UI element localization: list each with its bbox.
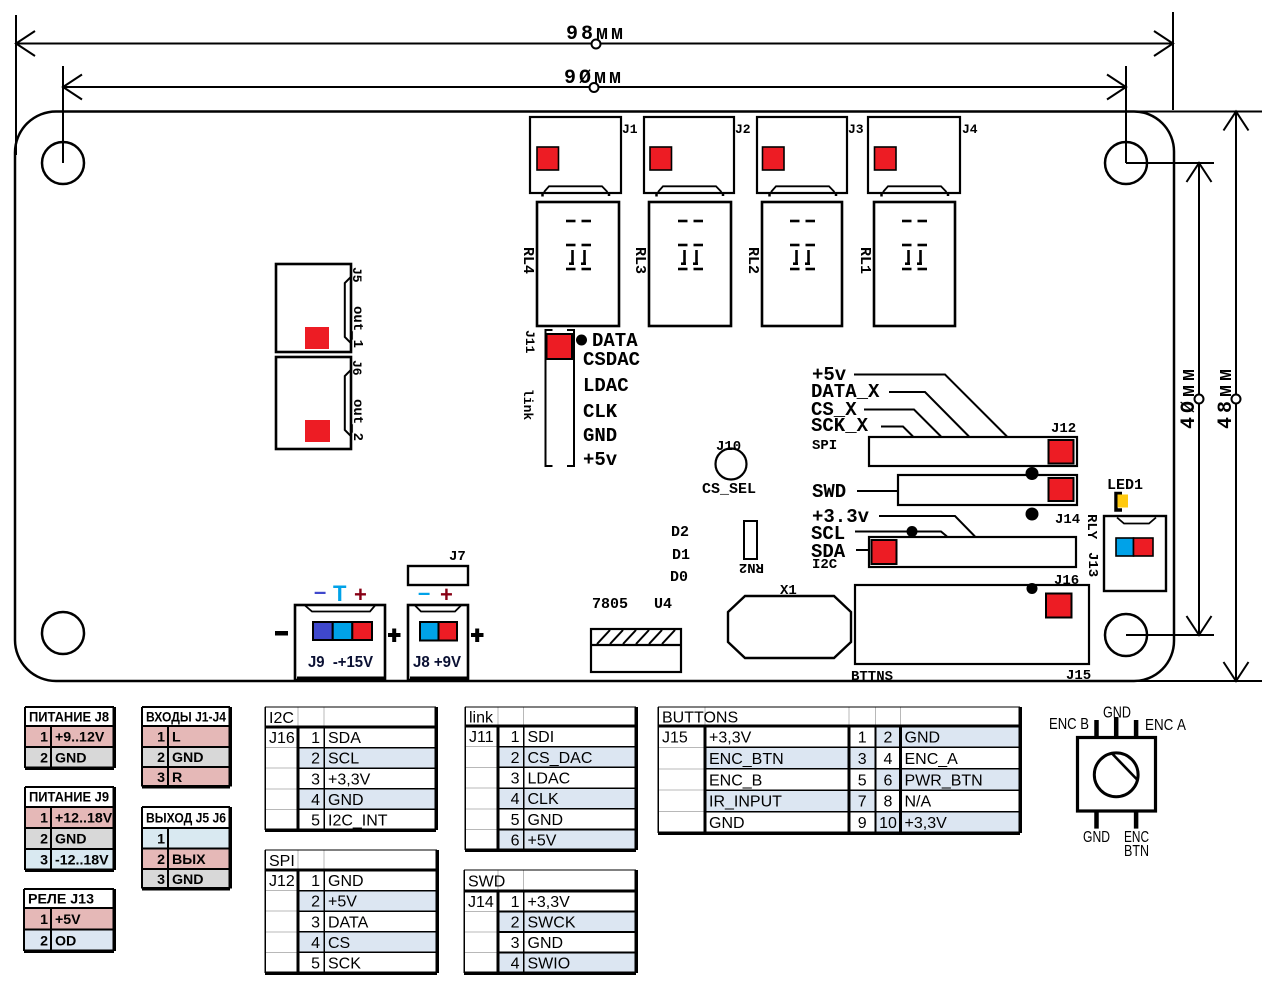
J9 polarity marks	[314, 579, 367, 607]
svg-text:2: 2	[40, 751, 48, 767]
svg-text:+: +	[440, 582, 453, 607]
crystal X1	[728, 583, 851, 658]
svg-text:5: 5	[311, 956, 320, 973]
svg-text:9: 9	[858, 815, 867, 832]
svg-text:-12..18V: -12..18V	[55, 853, 109, 869]
svg-text:5: 5	[858, 772, 867, 789]
via dot	[1027, 583, 1038, 594]
svg-text:CLK: CLK	[583, 401, 618, 423]
svg-text:3: 3	[157, 770, 165, 786]
svg-text:+5V: +5V	[55, 912, 81, 928]
svg-text:2: 2	[311, 751, 320, 768]
connector J15 BTTNS	[851, 585, 1091, 685]
dimension 48mm	[1135, 112, 1262, 682]
net SDA	[811, 541, 869, 563]
mounting hole top-left	[42, 142, 84, 184]
svg-text:6: 6	[884, 772, 893, 789]
table I2C J16	[265, 707, 436, 830]
svg-text:10: 10	[879, 815, 897, 832]
board outline	[15, 111, 1174, 681]
svg-text:GND: GND	[55, 751, 87, 767]
svg-text:RL3: RL3	[631, 247, 648, 274]
svg-text:3: 3	[157, 872, 165, 888]
svg-text:4Øмм: 4Øмм	[1178, 365, 1201, 429]
svg-text:RL4: RL4	[519, 247, 536, 274]
relay RL3	[631, 202, 731, 326]
diode D2	[671, 524, 689, 541]
svg-text:RL1: RL1	[856, 247, 873, 274]
svg-text:SWIO: SWIO	[528, 956, 571, 973]
svg-text:GND: GND	[583, 425, 617, 447]
svg-text:LED1: LED1	[1107, 477, 1143, 494]
svg-text:out_1: out_1	[349, 306, 365, 348]
svg-text:48мм: 48мм	[1215, 365, 1238, 429]
svg-text:J16: J16	[1054, 573, 1079, 589]
table PITANIE J8	[25, 707, 114, 768]
table VYHOD J5 J6	[142, 807, 230, 889]
svg-text:J6: J6	[349, 360, 364, 376]
svg-text:R: R	[172, 770, 182, 786]
svg-text:I2C: I2C	[812, 557, 838, 573]
net DATA_X	[811, 381, 969, 437]
regulator U4 7805	[591, 596, 681, 672]
svg-text:1: 1	[40, 730, 48, 746]
svg-text:SWD: SWD	[812, 481, 846, 503]
svg-text:GND: GND	[328, 873, 364, 890]
svg-text:J2: J2	[735, 122, 751, 137]
svg-text:2: 2	[511, 915, 520, 932]
svg-text:3: 3	[311, 914, 320, 931]
svg-text:2: 2	[40, 832, 48, 848]
svg-text:SCK: SCK	[328, 956, 361, 973]
connector SWD box	[812, 475, 1077, 505]
svg-text:RN2: RN2	[739, 559, 764, 575]
svg-text:J11: J11	[522, 330, 537, 354]
svg-text:5: 5	[511, 812, 520, 829]
svg-text:GND: GND	[528, 935, 564, 952]
svg-text:ВЫХ: ВЫХ	[172, 852, 206, 868]
net CS_X	[811, 399, 941, 437]
svg-text:IR_INPUT: IR_INPUT	[709, 794, 782, 811]
svg-text:4: 4	[884, 751, 893, 768]
svg-text:J5: J5	[349, 267, 364, 283]
svg-text:SWCK: SWCK	[528, 915, 576, 932]
svg-text:3: 3	[858, 751, 867, 768]
svg-text:SDA: SDA	[328, 730, 361, 747]
jumper J10 CS_SEL	[702, 439, 756, 498]
svg-text:SPI: SPI	[269, 853, 295, 870]
J11 pin labels	[583, 330, 640, 471]
svg-text:J10: J10	[716, 439, 741, 455]
svg-text:5: 5	[311, 813, 320, 830]
svg-text:–: –	[314, 579, 326, 604]
svg-text:BTTNS: BTTNS	[851, 669, 893, 685]
svg-text:J15: J15	[1066, 668, 1091, 684]
resistor network RN2	[739, 521, 764, 575]
svg-text:SCL: SCL	[328, 751, 359, 768]
svg-text:РЕЛЕ J13: РЕЛЕ J13	[28, 892, 94, 908]
svg-text:I2C_INT: I2C_INT	[328, 813, 388, 830]
encoder pin labels	[1049, 705, 1186, 861]
svg-text:1: 1	[157, 730, 165, 746]
svg-text:+3,3V: +3,3V	[528, 894, 571, 911]
connector J5 out_1	[276, 264, 365, 352]
via dot	[1026, 467, 1039, 480]
label J14	[1055, 512, 1080, 528]
svg-text:X1: X1	[780, 583, 797, 599]
svg-text:J12: J12	[269, 873, 295, 890]
svg-text:J12: J12	[1051, 421, 1076, 437]
svg-text:CLK: CLK	[528, 791, 559, 808]
svg-text:1: 1	[511, 729, 520, 746]
svg-text:8: 8	[884, 794, 893, 811]
svg-text:J14: J14	[1055, 512, 1080, 528]
svg-text:1: 1	[40, 811, 48, 827]
svg-text:–: –	[418, 580, 430, 605]
svg-text:1: 1	[511, 894, 520, 911]
svg-text:1: 1	[311, 873, 320, 890]
svg-text:3: 3	[311, 771, 320, 788]
relay connector J13 RLY	[1083, 514, 1166, 591]
connector J14 I2C	[812, 537, 1076, 573]
svg-text:LDAC: LDAC	[528, 771, 571, 788]
table SWD J14	[464, 870, 636, 973]
relay RL1	[856, 202, 955, 326]
svg-text:CS_DAC: CS_DAC	[528, 750, 593, 767]
svg-text:2: 2	[311, 894, 320, 911]
net SCK_X	[811, 415, 913, 437]
svg-text:+3,3V: +3,3V	[328, 771, 371, 788]
svg-text:GND: GND	[528, 812, 564, 829]
relay RL2	[744, 202, 842, 326]
svg-text:J3: J3	[848, 122, 864, 137]
svg-text:J13: J13	[1084, 552, 1100, 577]
dimension 40mm	[1126, 163, 1214, 635]
connector J7	[408, 549, 468, 585]
svg-text:2: 2	[40, 933, 48, 949]
svg-text:link: link	[469, 709, 494, 726]
svg-text:ВХОДЫ J1-J4: ВХОДЫ J1-J4	[146, 710, 226, 726]
svg-text:ENC A: ENC A	[1145, 717, 1186, 734]
net +5v	[812, 364, 1007, 437]
svg-text:1: 1	[311, 730, 320, 747]
dimension 98mm	[16, 12, 1173, 155]
J9 outside marks	[275, 629, 401, 643]
svg-text:CS_SEL: CS_SEL	[702, 481, 756, 498]
svg-text:+3,3V: +3,3V	[709, 730, 752, 747]
svg-text:ПИТАНИЕ J8: ПИТАНИЕ J8	[29, 710, 109, 726]
svg-text:BUTTONS: BUTTONS	[662, 709, 738, 726]
svg-text:RL2: RL2	[744, 247, 761, 274]
svg-text:+5v: +5v	[583, 449, 618, 471]
svg-text:3: 3	[511, 935, 520, 952]
svg-text:J9 -+15V: J9 -+15V	[308, 654, 373, 671]
svg-text:SDI: SDI	[528, 729, 555, 746]
table RELE J13	[24, 889, 114, 951]
svg-text:L: L	[172, 730, 181, 746]
svg-text:J8 +9V: J8 +9V	[413, 654, 461, 671]
svg-text:D0: D0	[670, 569, 688, 586]
svg-text:SWD: SWD	[468, 873, 505, 890]
svg-text:4: 4	[311, 792, 320, 809]
connector J6 out_2	[276, 357, 365, 449]
svg-text:ПИТАНИЕ J9: ПИТАНИЕ J9	[29, 790, 109, 806]
svg-text:BTN: BTN	[1124, 843, 1149, 860]
relay RL4	[519, 202, 619, 326]
svg-text:2: 2	[511, 750, 520, 767]
svg-text:GND: GND	[172, 872, 204, 888]
svg-text:T: T	[333, 581, 347, 606]
svg-text:7805: 7805	[592, 596, 628, 613]
via dot	[1026, 508, 1039, 521]
svg-text:OD: OD	[55, 933, 76, 949]
svg-text:98мм: 98мм	[566, 23, 626, 46]
svg-text:D2: D2	[671, 524, 689, 541]
svg-text:+9..12V: +9..12V	[55, 730, 105, 746]
svg-text:J7: J7	[449, 549, 466, 565]
mounting hole top-right	[1105, 142, 1147, 184]
svg-text:J15: J15	[662, 730, 688, 747]
svg-text:link: link	[520, 389, 535, 420]
connector J11 link	[520, 330, 587, 466]
svg-text:I2C: I2C	[269, 710, 294, 727]
svg-text:J11: J11	[469, 729, 494, 746]
connector J2	[644, 117, 751, 197]
table link J11	[465, 707, 636, 850]
svg-text:J4: J4	[962, 122, 978, 137]
connector J4	[868, 117, 978, 197]
svg-text:CSDAC: CSDAC	[583, 349, 640, 371]
J8 polarity marks	[418, 580, 453, 607]
J9 label	[308, 654, 373, 671]
label J16	[1054, 573, 1079, 589]
svg-text:ВЫХОД J5 J6: ВЫХОД J5 J6	[146, 811, 226, 827]
svg-text:1: 1	[40, 912, 48, 928]
svg-text:+3,3V: +3,3V	[905, 815, 948, 832]
svg-text:SCK_X: SCK_X	[811, 415, 869, 437]
J8 outside mark	[471, 629, 484, 643]
svg-text:GND: GND	[905, 730, 941, 747]
svg-text:ENC_BTN: ENC_BTN	[709, 751, 784, 768]
connector J3	[757, 117, 864, 197]
J8 label	[413, 654, 461, 671]
svg-text:U4: U4	[654, 596, 672, 613]
svg-text:CS: CS	[328, 935, 350, 952]
svg-text:J1: J1	[622, 122, 638, 137]
net +3.3v	[812, 506, 975, 537]
svg-text:GND: GND	[328, 792, 364, 809]
svg-text:+12..18V: +12..18V	[55, 811, 113, 827]
svg-text:6: 6	[511, 833, 520, 850]
table VHODY J1-J4	[142, 707, 230, 787]
svg-text:+5V: +5V	[328, 894, 357, 911]
svg-text:DATA: DATA	[328, 914, 369, 931]
connector J1	[530, 117, 638, 197]
svg-text:2: 2	[884, 730, 893, 747]
svg-text:9Øмм: 9Øмм	[564, 67, 624, 90]
table BUTTONS J15	[658, 707, 1020, 833]
dimension 90mm	[63, 66, 1126, 163]
terminal block J9	[295, 605, 385, 680]
svg-text:RLY: RLY	[1083, 514, 1099, 540]
svg-text:GND: GND	[1083, 829, 1110, 846]
svg-text:GND: GND	[709, 815, 745, 832]
svg-text:7: 7	[858, 794, 867, 811]
LED1	[1107, 477, 1143, 510]
svg-text:4: 4	[511, 956, 520, 973]
mounting hole bottom-left	[42, 612, 84, 654]
svg-text:N/A: N/A	[905, 794, 932, 811]
svg-text:4: 4	[511, 791, 520, 808]
diode D0	[670, 569, 688, 586]
svg-text:1: 1	[157, 831, 165, 847]
svg-text:2: 2	[157, 852, 165, 868]
svg-text:D1: D1	[672, 547, 690, 564]
svg-text:3: 3	[511, 771, 520, 788]
mounting hole bottom-right	[1105, 614, 1147, 656]
svg-text:ENC_B: ENC_B	[709, 772, 762, 789]
svg-text:1: 1	[858, 730, 867, 747]
svg-text:2: 2	[157, 750, 165, 766]
svg-text:out_2: out_2	[349, 399, 365, 441]
svg-text:+: +	[354, 582, 367, 607]
diode D1	[672, 547, 690, 564]
svg-text:SPI: SPI	[812, 438, 837, 454]
svg-text:ENC B: ENC B	[1049, 716, 1089, 733]
svg-text:3: 3	[40, 853, 48, 869]
svg-text:ENC_A: ENC_A	[905, 751, 959, 768]
encoder symbol	[1078, 717, 1156, 829]
connector J12 SPI	[812, 421, 1077, 466]
net SCL	[811, 523, 947, 545]
svg-text:GND: GND	[1103, 705, 1131, 722]
svg-text:J16: J16	[269, 730, 295, 747]
svg-text:PWR_BTN: PWR_BTN	[905, 772, 983, 789]
terminal block J8	[408, 605, 468, 680]
svg-text:LDAC: LDAC	[583, 375, 629, 397]
table SPI J12	[265, 850, 437, 973]
svg-text:J14: J14	[468, 894, 494, 911]
svg-text:+5V: +5V	[528, 833, 557, 850]
svg-text:GND: GND	[172, 750, 204, 766]
svg-text:GND: GND	[55, 832, 87, 848]
table PITANIE J9	[25, 787, 114, 870]
svg-text:4: 4	[311, 935, 320, 952]
